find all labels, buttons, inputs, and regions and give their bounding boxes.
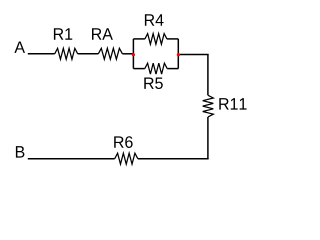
wire top branch right lead bbox=[167, 38, 178, 40]
resistor RA bbox=[98, 48, 122, 59]
wire bottom right segment bbox=[138, 158, 209, 160]
resistor R5 bbox=[145, 63, 167, 74]
wire from node A to R1 bbox=[28, 53, 55, 55]
wire top branch left lead bbox=[133, 38, 145, 40]
wire R6 to node B bbox=[28, 158, 115, 160]
resistor R6 bbox=[115, 153, 138, 164]
wire right junction to corner bbox=[178, 54, 208, 56]
label R11 bbox=[219, 98, 246, 109]
wire corner down to R11 bbox=[207, 54, 209, 95]
wire RA to parallel junction bbox=[122, 53, 133, 55]
label RA bbox=[92, 28, 113, 39]
label R4 bbox=[145, 14, 164, 25]
resistor R11 bbox=[203, 95, 214, 117]
wire left vertical of parallel block bbox=[132, 39, 134, 69]
label R1 bbox=[54, 28, 72, 39]
wire bottom branch right lead bbox=[167, 68, 178, 70]
wire bottom branch left lead bbox=[133, 68, 144, 70]
wire R11 down to bottom corner bbox=[207, 117, 209, 159]
resistor R4 bbox=[145, 34, 167, 45]
wire right vertical of parallel block bbox=[177, 39, 179, 69]
node B label bbox=[16, 146, 25, 157]
label R6 bbox=[114, 136, 132, 148]
wire R1 to RA bbox=[78, 53, 99, 55]
junction dot left (node) bbox=[132, 53, 135, 56]
resistor R1 bbox=[55, 48, 78, 59]
label R5 bbox=[144, 77, 162, 89]
junction dot right (node) bbox=[177, 53, 180, 56]
node A label bbox=[14, 41, 25, 52]
